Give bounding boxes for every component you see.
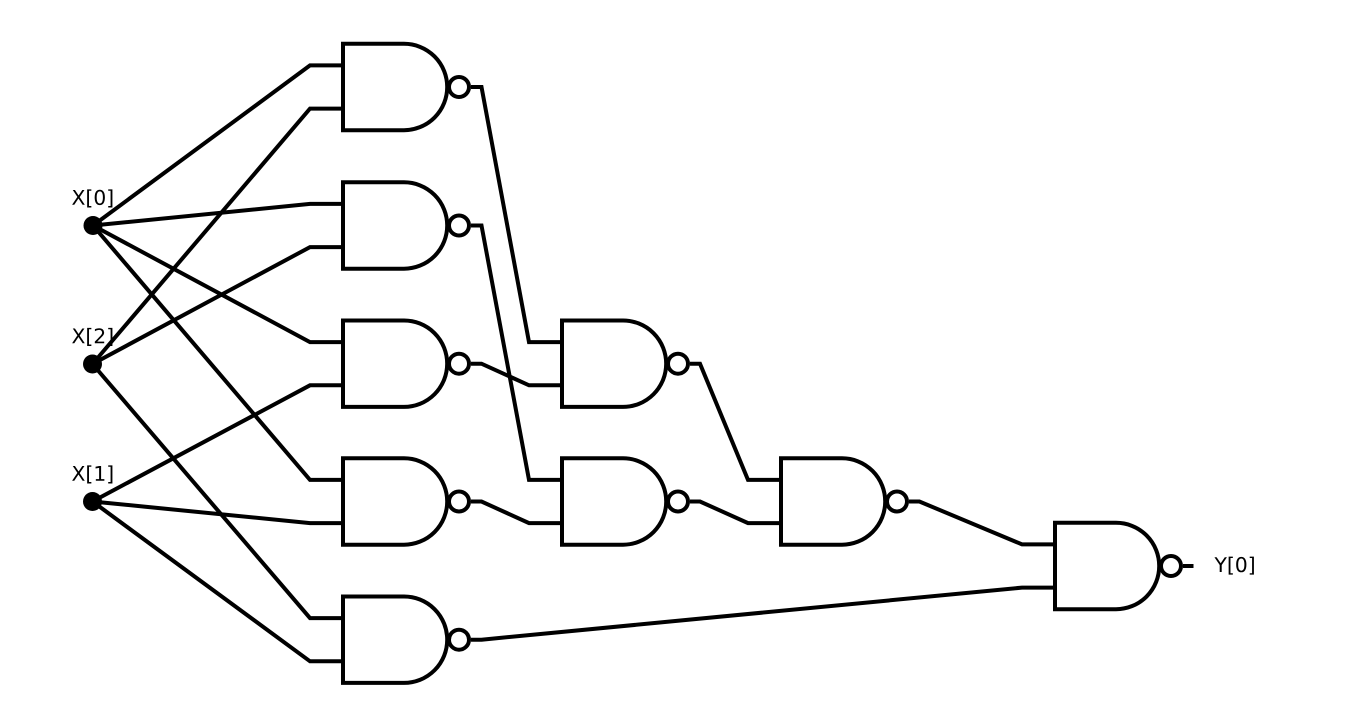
wire U3 output to U6 input B — [471, 364, 562, 386]
nand gate U9 — [1055, 523, 1159, 609]
inverter bubble U2 — [449, 216, 469, 236]
wire U9 output to Y[0] — [1183, 564, 1194, 568]
wire X[0] to U1 input A — [93, 65, 343, 225]
inverter bubble U1 — [449, 77, 469, 97]
wire X[2] to U2 input B — [93, 247, 344, 364]
inverter bubble U3 — [449, 354, 469, 374]
wire X[0] to U3 input A — [93, 226, 343, 343]
wire U6 output to U8 input A — [690, 364, 781, 480]
nand gate U2 — [343, 182, 447, 268]
nand gate U7 — [562, 458, 666, 544]
nand gate U1 — [343, 44, 447, 130]
label X[0] — [72, 189, 112, 207]
inverter bubble U9 — [1161, 556, 1181, 576]
nand gate U4 — [343, 458, 447, 544]
wire U7 output to U8 input B — [690, 502, 781, 524]
inverter bubble U4 — [449, 492, 469, 512]
wire U4 output to U7 input B — [471, 502, 562, 524]
inverter bubble U7 — [668, 492, 688, 512]
nand gate U8 — [781, 458, 885, 544]
wire X[2] to U5 input A — [93, 364, 344, 618]
label Y[0] — [1214, 557, 1253, 575]
wire X[0] to U2 input A — [93, 204, 343, 226]
nand gate U5 — [343, 597, 447, 683]
inverter bubble U6 — [668, 354, 688, 374]
wire U5 output to U9 input B — [471, 588, 1055, 640]
label X[1] — [72, 465, 112, 483]
nand gate U3 — [343, 321, 447, 407]
wire U8 output to U9 input A — [909, 502, 1055, 545]
wire U2 output to U7 input A — [471, 226, 562, 480]
nand gate U6 — [562, 321, 666, 407]
wire X[1] to U3 input B — [93, 385, 344, 501]
wire X[1] to U5 input B — [93, 502, 344, 662]
node X[0] junction dot — [84, 216, 103, 235]
label X[2] — [72, 328, 112, 346]
node X[2] junction dot — [83, 355, 102, 374]
wire X[1] to U4 input B — [93, 502, 344, 524]
inverter bubble U8 — [887, 492, 907, 512]
wire X[0] to U4 input A — [93, 226, 343, 480]
wire U1 output to U6 input A — [471, 87, 562, 342]
wire X[2] to U1 input B — [93, 109, 344, 364]
node X[1] junction dot — [83, 492, 102, 511]
inverter bubble U5 — [449, 630, 469, 650]
